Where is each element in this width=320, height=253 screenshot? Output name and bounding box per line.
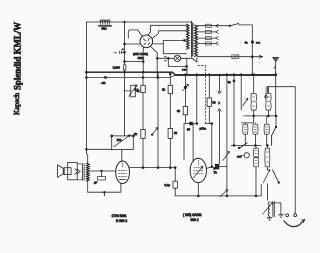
wire antenna lead: [275, 62, 277, 75]
resistor R4 tap box: [205, 37, 211, 40]
wire grid2: [125, 61, 144, 63]
tube V2 envelope: [116, 161, 130, 184]
coil L5 if winding: [267, 87, 269, 94]
svg-text:4μ: 4μ: [228, 80, 232, 84]
trimmer T5: [223, 152, 230, 161]
resistor R1 top coil: [100, 20, 110, 22]
capacitor C9: [174, 168, 176, 182]
wire top horizontal: [86, 21, 191, 23]
svg-text:4n: 4n: [245, 41, 249, 45]
node bus junction left: [86, 71, 88, 73]
coil L11 output primary: [87, 163, 90, 181]
resistor R2 tap box: [205, 24, 211, 27]
wire rf vertical: [162, 40, 164, 53]
wire v3 bottom: [197, 183, 199, 196]
resistor R9: [168, 129, 172, 139]
svg-text:Kapsch: Kapsch: [13, 93, 21, 115]
transformer T10 mains: [268, 202, 269, 217]
wire heater line: [86, 75, 175, 78]
trimmer T6: [266, 167, 268, 170]
svg-text:50k: 50k: [117, 138, 122, 142]
coil L4 if winding: [253, 75, 255, 94]
terminal socket right: [294, 214, 297, 217]
resistor R7: [141, 129, 145, 138]
bus main horizontal: [86, 72, 276, 75]
arrow wire end: [259, 55, 262, 58]
wire link: [184, 115, 189, 160]
tube V1 electrodes: [143, 38, 150, 44]
coil L7 bobbin: [253, 124, 258, 134]
ground left: [267, 217, 272, 220]
svg-text:50: 50: [177, 109, 181, 113]
wire agc: [211, 124, 213, 167]
wire anode up: [148, 25, 187, 35]
wire bottom left U: [88, 184, 121, 193]
trimmer core arrow: [263, 202, 273, 214]
wire rf top tap: [163, 39, 186, 41]
capacitor C3 small: [120, 51, 122, 54]
transformer core T1: [192, 22, 193, 58]
svg-text:~: ~: [115, 51, 117, 55]
resistor R10: [183, 106, 187, 114]
wire if bottoms: [254, 110, 269, 116]
terminal hook: [265, 87, 267, 96]
svg-text:50: 50: [213, 101, 217, 105]
wire mid horizontal: [130, 167, 176, 169]
tube V3 envelope: [190, 158, 206, 182]
wire column v2b: [196, 75, 198, 124]
terminal socket left: [286, 214, 289, 217]
wire tap4: [198, 42, 216, 44]
wire grid cap loop: [128, 30, 142, 38]
speaker SP1: [58, 165, 64, 177]
wire to right column: [239, 24, 253, 26]
svg-text:u m: u m: [182, 69, 186, 72]
wire pot feed: [124, 72, 126, 136]
wire cathode diag: [151, 47, 157, 78]
wire bobbin tops: [245, 116, 266, 124]
resistor R6 column: [142, 72, 144, 85]
wire if left stub: [267, 87, 269, 94]
capacitor C7: [189, 122, 193, 126]
wire if bottom bar: [244, 115, 277, 117]
wire grid to tube: [125, 43, 141, 45]
svg-text:und: und: [237, 155, 242, 159]
coil L8 bobbin: [264, 124, 269, 134]
terminal TA: [215, 164, 219, 169]
coil L6 bobbin: [243, 124, 248, 134]
resistor R5 tap box: [205, 42, 211, 45]
wire tap2: [198, 31, 216, 33]
svg-text:50: 50: [174, 131, 178, 135]
wire tap3: [198, 37, 216, 39]
wire bottom right up: [260, 184, 262, 196]
svg-text:1881: 1881: [138, 56, 145, 60]
transformer T7 core: [83, 164, 85, 181]
svg-text:μμ: μμ: [187, 128, 190, 131]
resistor R11 column: [208, 75, 210, 98]
wire right long vertical: [294, 87, 296, 214]
capacitor C2 on heater line: [104, 76, 107, 78]
svg-text:N 999 2: N 999 2: [116, 219, 127, 223]
wire v1 bottom lead: [142, 47, 145, 72]
antenna symbol: [273, 57, 279, 61]
switch S1: [230, 23, 239, 26]
wire lamp left: [157, 57, 174, 59]
svg-text:Splendid KML/W: Splendid KML/W: [13, 22, 24, 90]
trimmer T8: [125, 90, 131, 92]
svg-text:50Ω: 50Ω: [102, 27, 107, 31]
capacitor C8: [98, 177, 106, 180]
transformer T7 links: [77, 164, 82, 180]
trimmer T2: [240, 75, 242, 110]
switch S3: [239, 143, 247, 149]
svg-text:~50: ~50: [101, 81, 106, 85]
svg-text:999 2: 999 2: [191, 218, 199, 222]
contact arrow tap4: [216, 42, 219, 45]
wire if top: [268, 86, 296, 88]
wire bottom long: [175, 195, 261, 197]
coil L10 bobbin: [265, 148, 270, 167]
wire tap1: [198, 25, 230, 27]
wire plate right: [153, 43, 164, 45]
trimmer T4 column: [184, 75, 186, 107]
contact arrow tap1: [216, 24, 219, 27]
svg-text:0,1μ: 0,1μ: [165, 183, 171, 187]
wire screen: [152, 31, 187, 39]
wire column 227: [226, 75, 228, 196]
wire antenna down: [275, 75, 277, 116]
wire grid v2: [90, 170, 116, 172]
coil L2 primary: [187, 24, 189, 49]
mains swash: [284, 220, 305, 227]
wire band row: [231, 144, 261, 146]
svg-text:~: ~: [165, 59, 167, 63]
contact arrow tap2: [216, 30, 219, 33]
switch contacts S2: [219, 75, 221, 92]
potentiometer P1 50k: [112, 136, 134, 150]
switch S4: [275, 116, 277, 127]
svg-text:μF/m: μF/m: [200, 127, 207, 131]
switch S5: [272, 170, 278, 183]
capacitor C4 pill: [123, 65, 126, 71]
column C6 capacitor: [233, 75, 235, 146]
link dashed gang: [198, 66, 206, 124]
switch contact S6: [193, 58, 197, 63]
capacitor C5: [251, 41, 254, 44]
wire right column vertical: [251, 25, 253, 75]
wire rf bottom tap: [163, 53, 186, 55]
wire column 158: [157, 72, 159, 167]
tube V2 internals: [119, 163, 127, 176]
svg-text:μF: μF: [94, 181, 97, 185]
coil L9 double bobbin: [254, 148, 259, 157]
wire v2 top lead: [121, 150, 123, 162]
wire coil bottom: [197, 56, 262, 58]
wire lamp bottom: [168, 58, 187, 66]
wire grid column v1: [124, 22, 126, 72]
svg-text:0,996: 0,996: [113, 66, 120, 70]
wire if drop: [241, 116, 253, 123]
svg-text:( 165) SA261: ( 165) SA261: [183, 213, 202, 217]
fuse TF box: [232, 55, 239, 59]
jack J1: [244, 153, 249, 158]
resistor R3 tap box: [205, 30, 211, 33]
wire lamp feed: [186, 66, 188, 74]
tube V3 internals: [194, 160, 203, 174]
ground right: [279, 214, 284, 217]
wire lamp right: [181, 58, 193, 66]
speaker coil chevrons: [75, 169, 80, 174]
trimmer T9: [220, 190, 228, 197]
wire left vertical: [86, 148, 111, 150]
svg-text:1796 5361: 1796 5361: [112, 214, 127, 218]
resistor R8 column: [169, 73, 171, 86]
chassis tick: [103, 192, 105, 196]
svg-text:TA: TA: [214, 171, 218, 175]
trimmer T3: [152, 128, 158, 135]
lamp LA1 dial: [174, 55, 180, 61]
tube V1 envelope: [140, 35, 153, 48]
wire to coil: [87, 164, 89, 193]
coil L3 secondary tapped: [195, 25, 198, 56]
contact arrow tap3: [216, 37, 219, 40]
svg-text:n-n: n-n: [256, 41, 260, 45]
